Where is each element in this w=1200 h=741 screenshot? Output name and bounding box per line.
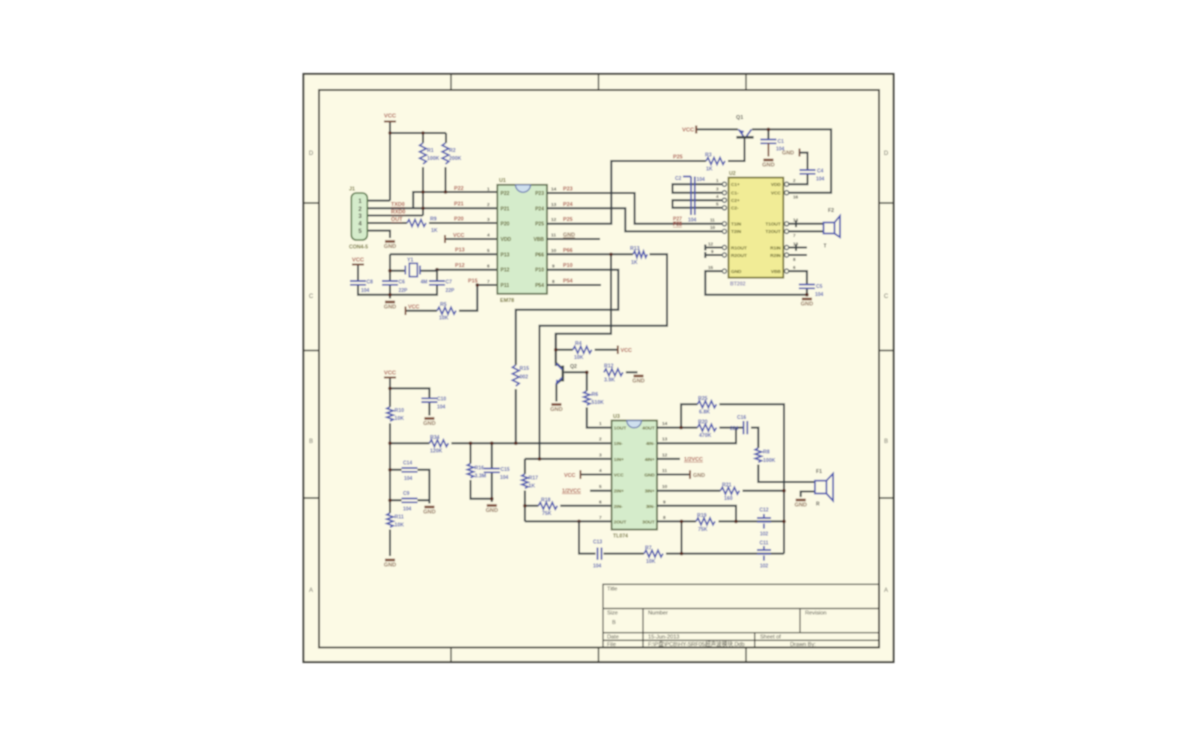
svg-text:15-Jun-2013: 15-Jun-2013: [648, 634, 679, 640]
power port VCC top-left: [384, 121, 396, 123]
svg-text:F2: F2: [828, 208, 834, 214]
svg-text:VDD: VDD: [771, 182, 782, 187]
resistor R20: [697, 424, 716, 431]
svg-text:VCC: VCC: [453, 233, 464, 239]
svg-text:6.8K: 6.8K: [699, 410, 710, 416]
wire VCC stem to J1 pin1: [367, 122, 390, 201]
svg-text:1: 1: [487, 187, 490, 193]
svg-text:11: 11: [710, 218, 715, 223]
svg-text:D: D: [309, 151, 314, 157]
svg-text:9: 9: [663, 499, 666, 505]
svg-text:4OUT: 4OUT: [642, 426, 655, 431]
IC U3 body: [612, 421, 657, 530]
svg-text:102: 102: [760, 564, 769, 570]
svg-text:R12: R12: [604, 364, 614, 370]
svg-text:C6: C6: [399, 280, 406, 286]
wire R2 bottom lead: [445, 167, 447, 192]
svg-text:104: 104: [403, 507, 412, 513]
resistor R12: [604, 369, 623, 376]
transistor Q1: [736, 129, 753, 137]
ground C14 C9 rail: [423, 507, 435, 516]
svg-text:OUT: OUT: [391, 217, 403, 223]
svg-text:U1: U1: [499, 178, 506, 184]
wire net P24 U1 pin13 to U2 T2IN: [547, 208, 722, 231]
wire R1IN stub: [789, 244, 807, 255]
svg-text:11: 11: [662, 468, 667, 474]
wire VCC node to C10: [390, 388, 429, 415]
svg-text:P22: P22: [501, 191, 510, 197]
capacitor C10: [421, 398, 437, 402]
svg-text:C16: C16: [737, 415, 746, 421]
svg-text:P21: P21: [501, 206, 510, 212]
svg-text:CON4-5: CON4-5: [349, 245, 368, 251]
svg-text:P24: P24: [535, 206, 544, 212]
junction P66: [609, 253, 613, 257]
svg-text:R3: R3: [705, 153, 712, 159]
border zone ticks top: [451, 74, 746, 90]
sheet background: [304, 74, 894, 662]
svg-text:R2IN: R2IN: [770, 253, 781, 258]
svg-text:002: 002: [520, 375, 529, 381]
wire J1 pin5 to gnd: [367, 231, 390, 238]
wire 3IN+ row through R21: [657, 490, 784, 492]
svg-text:1IN+: 1IN+: [614, 457, 624, 462]
svg-text:470K: 470K: [699, 433, 712, 439]
wire 4IN- row up to R20 out: [657, 428, 736, 444]
svg-text:R13: R13: [630, 246, 640, 252]
svg-text:R9: R9: [430, 217, 437, 223]
capacitor C4: [800, 170, 816, 174]
wire U3 GND stub: [657, 474, 690, 476]
svg-text:VCC: VCC: [352, 258, 365, 264]
TITLEBLOCK: [603, 584, 879, 647]
ground after R12: [632, 376, 644, 385]
resistor R6: [584, 391, 590, 405]
wire VCC to C8: [357, 265, 359, 282]
capacitor C8: [350, 281, 366, 285]
wire net P22 J1 to U1 pin1: [413, 192, 497, 208]
svg-text:2: 2: [793, 178, 796, 183]
svg-text:C13: C13: [593, 540, 602, 546]
svg-text:P66: P66: [563, 248, 573, 254]
svg-text:4IN-: 4IN-: [646, 441, 655, 446]
svg-text:13: 13: [551, 202, 557, 208]
svg-text:BT202: BT202: [730, 282, 746, 288]
svg-text:R2: R2: [449, 148, 456, 154]
transistor Q2: [556, 364, 563, 385]
border zone ticks left: [304, 203, 320, 498]
svg-text:3OUT: 3OUT: [642, 519, 655, 524]
svg-text:R15: R15: [520, 366, 530, 372]
resistor R17: [522, 474, 528, 488]
wire crystal right rail: [390, 270, 437, 295]
svg-text:B: B: [884, 439, 888, 445]
svg-text:C10: C10: [437, 397, 446, 403]
svg-text:C5: C5: [816, 284, 823, 290]
wire R8 lead down to speaker F1: [758, 465, 815, 483]
svg-text:VCC: VCC: [384, 371, 397, 377]
svg-text:13: 13: [662, 437, 668, 443]
capacitor C6: [382, 281, 398, 285]
resistor R2: [442, 143, 449, 164]
svg-text:A: A: [884, 588, 888, 594]
wire U1 P11 row left stub: [477, 284, 497, 286]
U3 notch: [627, 421, 642, 428]
svg-text:C: C: [309, 294, 314, 300]
svg-text:P22: P22: [454, 186, 464, 192]
U2 pin numbers left: [708, 178, 719, 270]
svg-text:10: 10: [710, 225, 716, 230]
svg-text:P23: P23: [535, 191, 544, 197]
svg-text:C2: C2: [675, 176, 682, 182]
svg-text:VCC: VCC: [771, 191, 782, 196]
svg-text:224: 224: [730, 426, 739, 432]
svg-text:102: 102: [760, 532, 769, 538]
svg-text:P10: P10: [535, 268, 544, 274]
svg-text:Size: Size: [607, 611, 618, 617]
svg-text:3: 3: [599, 452, 602, 458]
wire VCC to U1 pin4 VDD: [445, 238, 497, 240]
U1 pin names: [501, 191, 545, 289]
wire VCC to Q1 emitter: [696, 128, 738, 130]
svg-text:TL074: TL074: [613, 534, 628, 540]
svg-text:D: D: [884, 151, 889, 157]
svg-text:VDD: VDD: [501, 237, 512, 243]
wire R9 to U1 pin3: [429, 222, 497, 224]
svg-text:R11: R11: [395, 515, 404, 521]
svg-text:7: 7: [487, 279, 490, 285]
svg-text:B: B: [612, 620, 616, 626]
wire Q2 emitter to gnd: [556, 380, 561, 402]
svg-text:3.3M: 3.3M: [475, 474, 487, 480]
wire R12 to gnd: [626, 371, 638, 373]
wire R16 C15 branch: [471, 443, 492, 502]
junction dots U3 right: [679, 426, 786, 556]
svg-text:4: 4: [487, 233, 490, 239]
svg-text:F:\P盘\PCB\HY-SRF05超声波模块.Ddb: F:\P盘\PCB\HY-SRF05超声波模块.Ddb: [648, 640, 745, 648]
svg-text:10: 10: [551, 248, 557, 254]
svg-text:P25: P25: [673, 155, 683, 161]
wire R5 to U1 pin7: [406, 285, 498, 311]
svg-text:10: 10: [662, 484, 668, 490]
svg-text:C1+: C1+: [731, 182, 740, 187]
U2 pin names: [731, 182, 781, 274]
svg-text:2OUT: 2OUT: [614, 519, 627, 524]
svg-text:104: 104: [500, 475, 509, 481]
ground R16 C15: [486, 506, 498, 515]
wire net P54 U1 pin8 stub: [547, 284, 601, 286]
svg-text:100K: 100K: [427, 156, 440, 162]
svg-text:C1: C1: [778, 139, 785, 145]
wire R10 to R34 node: [389, 423, 391, 443]
svg-text:R5: R5: [440, 302, 447, 308]
wire R15 bottom to 1IN- rail: [515, 389, 517, 443]
svg-text:VBB: VBB: [771, 269, 782, 274]
wire R2OUT stub: [705, 252, 722, 258]
power port VCC crystal: [352, 264, 364, 266]
U1 pin numbers left: [487, 187, 490, 286]
wire R4 node to Q2 collector: [556, 334, 562, 368]
svg-text:7: 7: [793, 233, 796, 238]
svg-text:14: 14: [551, 187, 557, 193]
svg-text:4: 4: [716, 194, 719, 199]
wire 3OUT row through R19: [657, 520, 784, 522]
svg-text:Number: Number: [648, 611, 668, 617]
wire Q1 collector to right vertical down to U2 VCC: [752, 129, 831, 192]
svg-text:P54: P54: [563, 278, 573, 284]
svg-text:P10: P10: [563, 263, 573, 269]
svg-text:Date: Date: [607, 634, 619, 640]
resistor R11: [387, 513, 393, 527]
ground under C5: [801, 299, 813, 308]
svg-text:104: 104: [697, 177, 706, 183]
svg-text:EM78: EM78: [500, 298, 514, 304]
capacitor C11: [757, 546, 771, 561]
resistor R3: [706, 158, 725, 165]
svg-text:104: 104: [816, 177, 825, 183]
junction crystal rail: [388, 269, 392, 297]
wire R25 loop: [681, 404, 784, 553]
svg-text:15: 15: [708, 265, 714, 270]
wire net P21 J1 pin2 to U1 pin2: [367, 207, 497, 209]
ground under C10: [423, 419, 435, 428]
svg-text:P11: P11: [501, 283, 510, 289]
title block outline: [603, 584, 879, 647]
power port VCC U3 pin4: [579, 470, 581, 479]
svg-text:GND: GND: [782, 151, 794, 157]
svg-text:C2+: C2+: [731, 198, 740, 203]
svg-text:2: 2: [599, 437, 602, 443]
resistor R9: [407, 220, 426, 227]
svg-text:U3: U3: [613, 414, 620, 420]
svg-text:P23: P23: [563, 187, 573, 193]
resistor R34: [429, 440, 448, 447]
svg-text:4IN+: 4IN+: [645, 457, 655, 462]
svg-text:R1IN: R1IN: [770, 245, 781, 250]
svg-text:GND: GND: [731, 269, 742, 274]
svg-text:5: 5: [716, 202, 719, 207]
svg-text:T2IN: T2IN: [731, 229, 742, 234]
svg-text:2IN+: 2IN+: [614, 489, 624, 494]
resistor R10: [387, 407, 393, 421]
svg-text:22P: 22P: [446, 288, 456, 294]
svg-text:Q2: Q2: [570, 364, 577, 370]
inner border frame: [319, 90, 879, 648]
wire net P12 crystal to U1 pin6: [437, 269, 497, 271]
junction Q2 base node: [585, 371, 589, 375]
svg-text:C1-: C1-: [731, 191, 739, 196]
svg-text:GND: GND: [644, 473, 655, 478]
junction C5 gnd rail: [805, 293, 809, 297]
svg-text:VCC: VCC: [621, 348, 632, 354]
svg-text:11: 11: [551, 233, 556, 239]
resistor R19: [696, 518, 715, 525]
svg-text:R20: R20: [698, 419, 708, 425]
power port VCC Q1: [695, 126, 697, 134]
svg-text:VBB: VBB: [533, 237, 544, 243]
ground under C1: [762, 160, 774, 169]
wire net P20 J1 pin4 to R9: [367, 222, 407, 224]
U2 pin bubbles right: [785, 182, 789, 273]
svg-text:1K: 1K: [631, 260, 638, 266]
wire J1 pin3 row: [367, 215, 423, 217]
svg-text:R17: R17: [529, 476, 539, 482]
svg-text:GND: GND: [563, 232, 575, 238]
svg-text:C12: C12: [759, 508, 768, 514]
svg-text:T1OUT: T1OUT: [765, 222, 781, 227]
wire crystal left rail: [390, 254, 405, 298]
power port GND U3 pin11: [689, 470, 691, 479]
svg-text:16: 16: [793, 195, 799, 200]
svg-text:75K: 75K: [542, 511, 552, 517]
svg-text:P15: P15: [468, 279, 478, 285]
svg-text:104: 104: [593, 564, 602, 570]
power port VCC bottom left: [384, 377, 396, 379]
capacitor C9: [402, 499, 418, 503]
wire speaker F1 gnd lead: [801, 492, 815, 498]
svg-text:C11: C11: [760, 541, 769, 547]
svg-text:1OUT: 1OUT: [614, 426, 627, 431]
ground under J1 pin5: [384, 242, 396, 251]
wire R6 node down to U3 pin1: [587, 372, 612, 427]
wire 3IN- row to R19 out: [657, 506, 736, 522]
resistor R21: [720, 487, 739, 494]
IC U1 body: [497, 185, 547, 294]
U3 pin numbers right: [662, 421, 668, 521]
wire net P13 crystal to U1 pin5: [390, 253, 497, 255]
wire 4IN+ stub: [657, 458, 680, 460]
svg-text:R10: R10: [395, 408, 405, 414]
svg-text:F1: F1: [816, 469, 822, 475]
capacitor C15: [484, 469, 500, 473]
svg-text:B: B: [309, 439, 313, 445]
svg-text:100K: 100K: [763, 458, 776, 464]
svg-text:10K: 10K: [395, 523, 405, 529]
junction U3 left: [523, 457, 581, 523]
svg-text:120K: 120K: [430, 449, 443, 455]
title block row lines: [603, 609, 879, 641]
svg-text:104: 104: [361, 288, 370, 294]
wire R3 to Q1 base: [728, 139, 745, 162]
svg-text:8: 8: [793, 257, 796, 262]
wire VCC down to R10: [389, 378, 391, 407]
wire R4 to VCC: [556, 349, 618, 351]
wire Q2 base to R12 R6 node: [564, 371, 587, 373]
power port VCC at R5: [405, 307, 407, 316]
wire 3OUT node down to bottom rail: [681, 521, 683, 553]
svg-text:R8: R8: [763, 450, 770, 456]
IC U2 body: [729, 178, 784, 278]
resistor R5: [437, 307, 456, 314]
svg-text:VCC: VCC: [614, 473, 625, 478]
svg-text:10K: 10K: [574, 355, 584, 361]
svg-text:4M: 4M: [421, 280, 428, 286]
wire C8 bottom to gnd rail: [358, 285, 390, 295]
wire net P23 U1 pin14 to U2 T1IN: [547, 193, 722, 224]
svg-text:12: 12: [708, 241, 714, 246]
svg-text:R1: R1: [427, 148, 434, 154]
svg-text:6: 6: [793, 265, 796, 270]
speaker F2: [824, 216, 841, 238]
svg-text:VCC: VCC: [408, 305, 419, 311]
U3 pin names: [614, 426, 656, 525]
capacitor C7: [429, 281, 445, 285]
U3 pin numbers left: [599, 421, 602, 521]
junction VCC rail C1: [767, 128, 771, 132]
junction dots top-left: [388, 131, 479, 287]
svg-text:1K: 1K: [431, 228, 438, 234]
wire net P10 U1 pin9 descent: [516, 270, 619, 365]
svg-text:C8: C8: [367, 280, 374, 286]
ground speaker F1: [794, 500, 806, 509]
ground Q2 emitter: [550, 405, 562, 414]
U1 pin numbers right: [551, 187, 557, 286]
svg-text:VCC: VCC: [564, 473, 575, 479]
wire U2 GND pin routing to C5 gnd: [705, 271, 807, 295]
svg-text:1K: 1K: [529, 484, 536, 490]
resistor R25: [697, 401, 716, 408]
svg-text:P25: P25: [563, 217, 573, 223]
border zone ticks bottom: [451, 648, 746, 663]
svg-text:File: File: [607, 642, 616, 648]
title block column lines: [643, 609, 800, 648]
svg-text:P66: P66: [535, 252, 544, 258]
svg-text:6: 6: [487, 264, 490, 270]
svg-text:2IN-: 2IN-: [614, 504, 623, 509]
wire U2 T1OUT T2OUT to speaker F2: [789, 221, 824, 232]
svg-text:RXD0: RXD0: [391, 210, 405, 216]
connector J1: [351, 193, 367, 240]
svg-text:8: 8: [663, 515, 666, 521]
svg-text:160: 160: [724, 496, 733, 502]
U1 notch: [516, 185, 531, 193]
capacitor C12: [757, 514, 771, 529]
svg-text:200K: 200K: [449, 156, 462, 162]
svg-text:4: 4: [599, 468, 602, 474]
svg-text:T2OUT: T2OUT: [765, 229, 781, 234]
wire left rail below R34 node: [389, 443, 391, 556]
svg-text:3IN+: 3IN+: [645, 489, 655, 494]
resistor R4: [573, 346, 592, 353]
svg-text:P21: P21: [454, 202, 464, 208]
capacitor C5: [799, 285, 815, 289]
resistor R18: [538, 502, 557, 509]
wire R13 to vertical C: [540, 254, 668, 459]
svg-text:Q1: Q1: [736, 115, 743, 121]
svg-text:510K: 510K: [592, 400, 605, 406]
wire GND port to C4 to U2 VDD: [789, 153, 808, 185]
wire R1 bottom lead: [422, 167, 424, 215]
svg-text:1IN-: 1IN-: [614, 441, 623, 446]
junction R4 node: [554, 348, 558, 352]
svg-text:Title: Title: [607, 587, 617, 593]
svg-text:C4: C4: [817, 169, 824, 175]
resistor R13: [633, 251, 647, 257]
U2 pin numbers right: [793, 178, 799, 270]
svg-text:1/2VCC: 1/2VCC: [562, 488, 581, 494]
wire C9 branch: [390, 500, 429, 503]
svg-text:Drawn By:: Drawn By:: [790, 642, 816, 648]
wire C1+ C1- bracket: [673, 184, 722, 193]
svg-text:10K: 10K: [646, 559, 656, 565]
wire C2+ C2- bracket: [673, 200, 722, 208]
wire R17 leads: [524, 459, 526, 522]
wire net P66 U1 pin10 to R13: [547, 253, 633, 255]
svg-text:12: 12: [551, 217, 557, 223]
svg-text:104: 104: [404, 476, 413, 482]
wire VBB to C5: [789, 271, 807, 295]
svg-text:1: 1: [599, 421, 602, 427]
